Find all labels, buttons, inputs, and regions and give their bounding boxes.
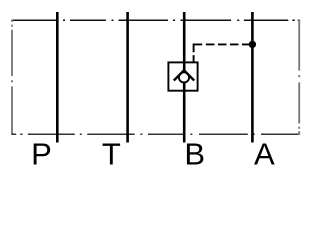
svg-text:B: B [184,137,205,172]
wire: port line B [183,12,186,143]
svg-text:P: P [31,137,52,172]
check valve V1: body box [168,62,197,90]
plate outline top edge (dash-dot) [12,19,301,21]
plate outline right edge (dash-dot) [298,20,300,135]
wire: port line T [126,12,129,143]
wire: port line P [56,12,59,143]
plate outline left edge (dash-dot) [11,20,13,135]
svg-text:A: A [254,137,275,172]
junction node on port A line [249,41,256,48]
wire: port line A [251,12,254,143]
check valve V1: ball [179,72,189,82]
svg-text:T: T [102,137,121,172]
pilot line (dashed) from check valve to port A [194,44,251,62]
check valve V1: seat [174,70,194,80]
plate outline bottom edge (dash-dot) [12,133,300,135]
